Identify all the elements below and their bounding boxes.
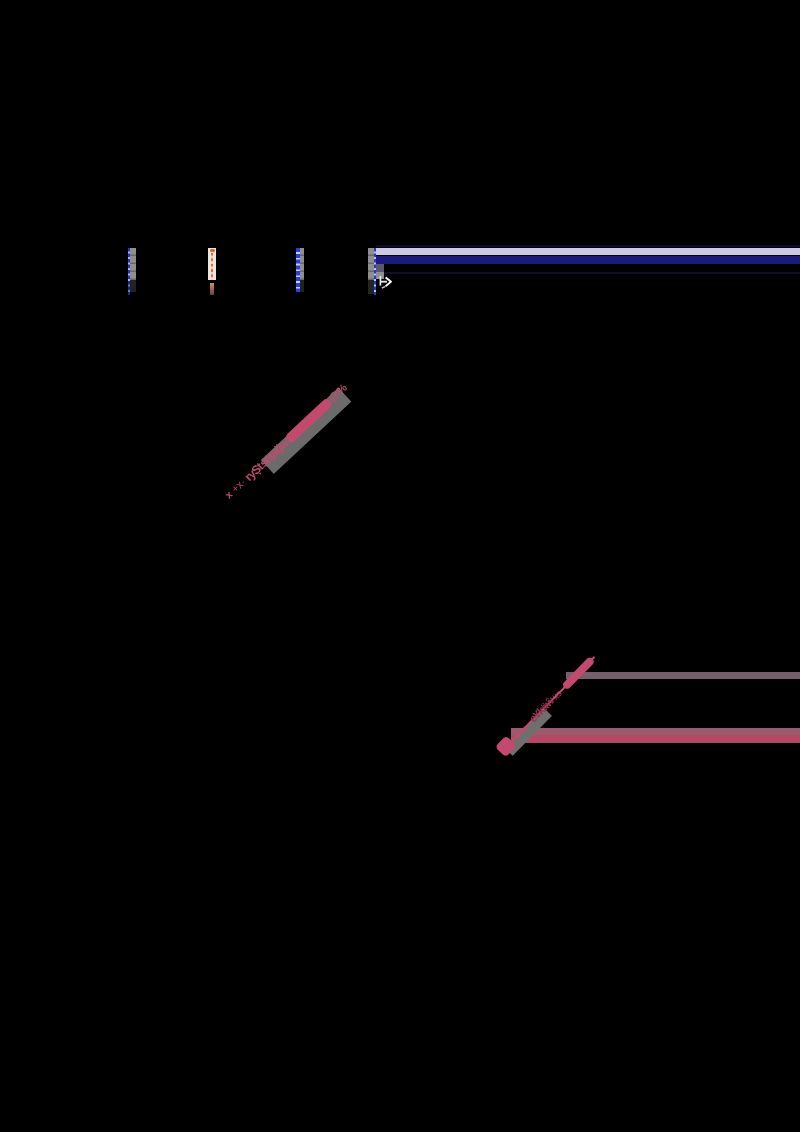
wire : lifeline 2 orange dashed line xyxy=(211,253,213,280)
node C2 : lifeline 3 lower faint band xyxy=(300,280,305,292)
node D : lifeline 4 label band (left side) xyxy=(368,248,374,280)
wire : lifeline 1 dashed line upper xyxy=(128,248,131,281)
wire : lavender horizontal bar xyxy=(376,248,800,255)
node B : lifeline 2 pale band xyxy=(208,248,216,281)
annotation 2 : rotated red text with line and gray shadow (lower-right diagonal) xyxy=(501,750,503,752)
gray highlight band xyxy=(260,387,351,474)
wire : navy horizontal bar xyxy=(376,256,800,264)
node A : lifeline 1 label band xyxy=(130,248,136,280)
node F : white arrow marker xyxy=(377,274,395,290)
wire : rose horizontal bar lower tone xyxy=(511,735,800,743)
annotation 1 : rotated red text with gray highlight (upper-left diagonal) xyxy=(226,496,228,498)
wire : lifeline 3 dashed line xyxy=(296,248,300,292)
node B2 : lifeline 2 top orange blob xyxy=(210,249,215,252)
wire : lifeline 1 dashed line lower xyxy=(128,281,131,295)
node E2 : light gray box xyxy=(376,272,385,279)
wire : mauve horizontal bar xyxy=(566,672,800,679)
node E : slate box under bars xyxy=(376,264,384,272)
wire : lifeline 2 lower salmon continuation xyxy=(210,283,215,295)
text run xyxy=(221,380,352,504)
thin line along diagonal xyxy=(505,656,595,748)
wire : rose horizontal bar upper tone xyxy=(511,728,800,736)
text clusters xyxy=(510,653,599,743)
wire : dark top border above lavender bar xyxy=(376,245,800,247)
node A2 : lifeline 1 lower faint band xyxy=(130,280,136,292)
wire : dark bottom border below navy bar xyxy=(376,272,800,274)
gray shadow band xyxy=(505,708,552,756)
node D2 : lifeline 4 lower faint band xyxy=(368,280,374,294)
node C : lifeline 3 label band xyxy=(300,248,305,280)
wire : lifeline 4 dashed line xyxy=(374,248,377,295)
start blob xyxy=(495,735,517,757)
